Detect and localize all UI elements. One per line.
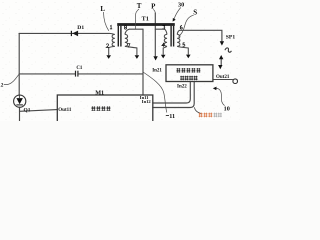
wire: P winding pin3 horizontal — [155, 28, 164, 30]
svg-text:M1: M1 — [95, 90, 104, 97]
pin 8 — [124, 25, 126, 29]
svg-text:C1: C1 — [76, 66, 83, 71]
In21 arrow and label — [153, 56, 157, 60]
winding S (pins 6-5) — [177, 30, 188, 54]
pin 1 — [110, 25, 112, 29]
spark plug SP1 — [218, 35, 235, 70]
wire: T winding pin8 horizontal — [129, 28, 143, 30]
pin 3 — [163, 26, 165, 29]
wire: left vertical rail — [18, 33, 20, 95]
wire: In12 lower link M1 to M2 — [153, 82, 194, 108]
transformer T1 core yoke (element 30) — [117, 23, 175, 26]
T1 right core bars — [170, 26, 171, 47]
wire: left rail below Q1 to bottom edge — [19, 107, 21, 121]
svg-text:Q1: Q1 — [24, 108, 31, 114]
diode D1 — [71, 25, 85, 36]
M1 text 点火控制 — [91, 106, 110, 111]
wire: Q1 to Out11 — [20, 110, 58, 112]
watermark — [199, 113, 213, 118]
wire: watermark tail curve — [194, 108, 200, 114]
ground arrow at pin 7 — [135, 55, 140, 59]
svg-text:10: 10 — [224, 106, 230, 113]
winding L (pins 1-2) — [109, 33, 115, 55]
svg-text:11: 11 — [169, 113, 175, 120]
pin 4 — [162, 43, 165, 47]
svg-text:T1: T1 — [142, 15, 149, 22]
svg-text:D1: D1 — [77, 25, 84, 31]
wire: top bus from left corner to T1 pin1 — [19, 32, 109, 34]
svg-text:Out11: Out11 — [58, 108, 72, 113]
svg-text:In21: In21 — [152, 69, 162, 74]
box M1: ignition control — [57, 95, 153, 123]
thyristor Q1 — [14, 95, 31, 114]
pin 2 — [106, 44, 109, 48]
ground arrow at pin 5 — [186, 55, 191, 59]
wire: M2 Out21 stub to terminal — [213, 79, 233, 81]
svg-text:In22: In22 — [177, 85, 187, 90]
svg-text:SP1: SP1 — [226, 35, 236, 41]
wire: net 11 vertical from T winding to M1 In11 — [142, 29, 144, 95]
pin 5 — [183, 43, 185, 46]
svg-text:T: T — [137, 2, 142, 10]
ground arrow at pin 2 — [106, 55, 111, 59]
svg-text:In12: In12 — [142, 99, 152, 104]
winding T (pins 8-7) — [125, 29, 137, 55]
M2 text line2 开关元件 — [180, 76, 197, 81]
wire: S winding pin6 to SP1 bend — [180, 30, 222, 41]
ground arrow at pin 4 — [161, 55, 166, 59]
wire: In12 upper link M1 to M2 — [153, 82, 191, 103]
node 12 label and leader — [0, 74, 19, 88]
paper background — [0, 0, 240, 121]
terminal circle at Out21 — [233, 79, 238, 84]
svg-text:12: 12 — [0, 83, 4, 89]
svg-text:30: 30 — [178, 1, 184, 8]
T1 left core bars — [118, 26, 119, 47]
winding P (pins 3-4) — [163, 29, 167, 55]
svg-text:L: L — [100, 5, 105, 13]
wire: In21 drop with vertical — [154, 13, 156, 56]
capacitor C1 — [75, 66, 83, 77]
box M2: voltage control and switching element — [166, 65, 213, 82]
svg-text:Out21: Out21 — [216, 75, 230, 80]
node 11 leader and label — [143, 72, 167, 113]
pin 7 — [127, 44, 129, 48]
pin 6 — [180, 26, 182, 30]
wire: spark gap lower electrode to Out21 — [220, 59, 222, 65]
M2 text line1 电压控制和 — [176, 68, 200, 73]
svg-text:S: S — [193, 8, 197, 16]
wire: mid horizontal from rail through C1 to node 11 — [19, 73, 143, 75]
